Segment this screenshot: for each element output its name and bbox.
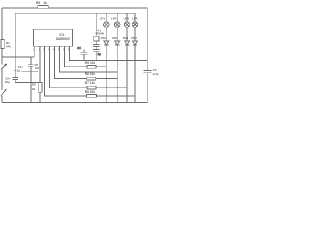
switch S1 [1, 64, 7, 70]
capacitor C5 [143, 69, 151, 71]
svg-text:R5 11k: R5 11k [85, 61, 95, 65]
svg-text:PD3: PD3 [123, 36, 129, 40]
wire right rail lower [146, 73, 148, 103]
wire channel 3 lower [126, 45, 128, 103]
svg-text:LP1: LP1 [100, 16, 106, 20]
svg-text:LP2: LP2 [111, 16, 117, 20]
capacitor C1 [28, 64, 33, 66]
svg-text:1µ: 1µ [98, 52, 101, 56]
capacitor C3 [93, 44, 100, 46]
wire node to R2 top [15, 81, 40, 83]
pin 6 fan wire [60, 46, 118, 72]
diode D3 [125, 41, 130, 45]
wire C1 to bottom bus [30, 66, 32, 102]
wire C2 to node [14, 80, 16, 83]
wire lamp feed channel 3 [126, 13, 128, 22]
wire bottom bus [2, 102, 147, 104]
wire channel 1 upper [105, 27, 107, 41]
ic U1 outline [34, 29, 73, 46]
wire R3 to C3 [95, 41, 97, 44]
wire C1 column [30, 57, 32, 65]
svg-text:47k: 47k [6, 45, 11, 49]
wire R5 to channel 1 [96, 66, 106, 68]
wire bus2 drop column x15 [14, 13, 16, 77]
wire second bus [15, 12, 135, 14]
svg-text:1k: 1k [43, 1, 47, 5]
switch S2 [1, 90, 6, 97]
pin 4 fan wire [50, 46, 88, 87]
wire top bus right of R9 [48, 7, 147, 9]
wire left rail bottom [1, 96, 3, 103]
wire C3b to node wire [95, 51, 97, 60]
wire channel 3 upper [126, 27, 128, 41]
pin 5 fan wire [55, 46, 87, 78]
resistor R5 [87, 65, 96, 68]
svg-text:PD1: PD1 [101, 36, 107, 40]
resistor R2 [38, 82, 42, 92]
wire R8 to channel 4 [97, 95, 136, 97]
wire C3 link [95, 46, 97, 49]
wire R2 to bottom bus [39, 92, 41, 102]
svg-text:PD2: PD2 [112, 36, 118, 40]
pin 1 wire [33, 46, 35, 57]
diode D2 [115, 41, 120, 45]
svg-text:PD600: PD600 [96, 32, 105, 36]
svg-text:R7 11k: R7 11k [85, 81, 95, 85]
svg-text:LP3: LP3 [124, 16, 130, 20]
wire branch x96 from bus2 [95, 13, 97, 36]
svg-text:R9: R9 [36, 1, 40, 5]
lamp LP2 [114, 22, 120, 28]
wire lamp feed channel 4 [134, 13, 136, 22]
resistor R1 [1, 40, 4, 49]
wire node row y57 [2, 56, 34, 58]
wire channel 2 upper [116, 27, 118, 41]
wire lamp feed channel 2 [116, 13, 118, 22]
wire stub below C1 label [22, 70, 39, 72]
svg-text:R6 51k: R6 51k [85, 72, 96, 76]
svg-text:2k: 2k [32, 87, 36, 91]
wire right rail upper [146, 8, 148, 70]
lamp LP3 [124, 22, 130, 28]
svg-text:2,2µ: 2,2µ [153, 72, 159, 76]
wire left rail lower [1, 70, 3, 91]
wire C4 stub up [83, 49, 85, 52]
capacitor C2 [13, 77, 18, 79]
pin 3 fan wire [45, 46, 87, 96]
wire channel 1 lower [105, 45, 107, 103]
wire left rail upper [1, 8, 3, 40]
svg-text:PD4: PD4 [131, 36, 137, 40]
resistor R7 [87, 86, 96, 89]
svg-text:R8 51k: R8 51k [85, 90, 96, 94]
svg-text:4,7µ: 4,7µ [14, 68, 20, 72]
svg-text:1M: 1M [35, 66, 39, 70]
pin 2 wire [39, 46, 41, 82]
svg-text:C2=: C2= [5, 77, 11, 81]
wire top supply bus [2, 7, 38, 9]
wire R6 to channel 2 [96, 78, 118, 80]
wire channel 4 lower [134, 45, 136, 103]
wire left rail mid [1, 49, 3, 65]
resistor R9 [38, 5, 49, 8]
lamp LP1 [104, 22, 110, 28]
wire channel 4 upper [134, 27, 136, 41]
wire C4 to node wire [83, 54, 85, 60]
diode D4 [133, 41, 138, 45]
wire R7 to channel 3 [96, 87, 127, 89]
lamp LP4 [132, 22, 138, 28]
svg-text:C4: C4 [77, 46, 81, 50]
resistor R3 [94, 36, 99, 41]
svg-text:LP4: LP4 [132, 16, 138, 20]
wire channel 2 lower [116, 45, 118, 103]
diode D1 [104, 41, 109, 45]
svg-text:SAB0600: SAB0600 [56, 37, 70, 41]
resistor R8 [87, 95, 97, 98]
capacitor C3b [93, 48, 100, 50]
wire lamp feed channel 1 [105, 13, 107, 22]
capacitor C4 [81, 51, 88, 53]
resistor R6 [87, 77, 96, 80]
pin 7 fan wire [65, 46, 88, 67]
pin 8 fan wire to right rail [70, 46, 148, 60]
